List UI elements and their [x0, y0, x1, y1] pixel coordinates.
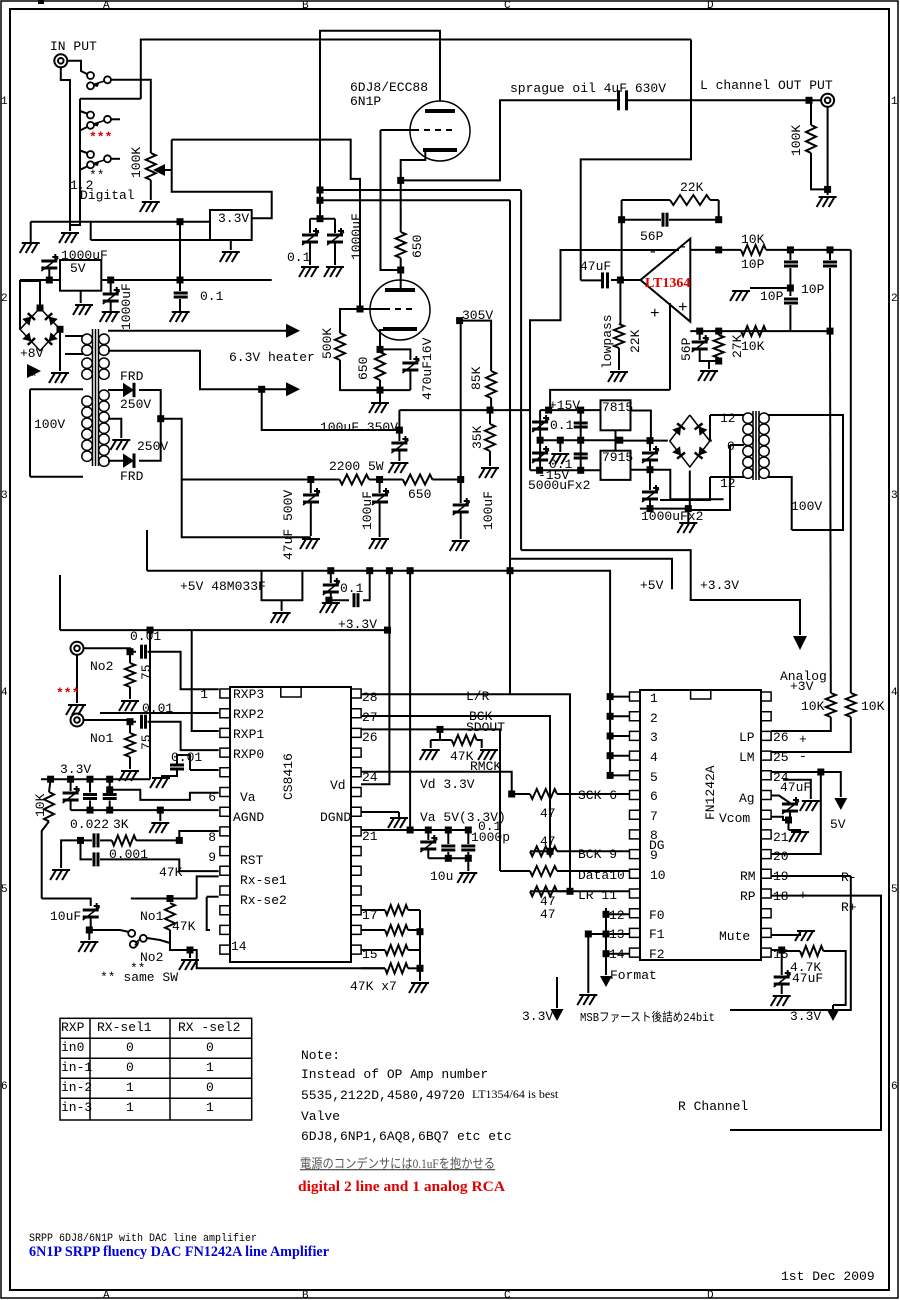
- wire cap1000b gnd: [110, 302, 112, 311]
- node anode rail a: [317, 187, 324, 194]
- wire cap01 stem: [179, 280, 181, 291]
- wire fn supply col: [609, 694, 611, 777]
- diode B2 d3: [672, 446, 685, 458]
- wire 3K right: [136, 839, 179, 841]
- wire fn pin3 link: [610, 735, 629, 737]
- wire c01 48M stem: [330, 571, 332, 583]
- resistor 75 No2: [125, 663, 135, 687]
- svg-text:Note:: Note:: [301, 1048, 340, 1063]
- ground 75 No2: [119, 701, 139, 711]
- node V2 anode: [397, 267, 404, 274]
- svg-text:+3.3V: +3.3V: [338, 617, 377, 632]
- wire jack shell down: [827, 107, 829, 195]
- svg-text:1000uFx2: 1000uFx2: [641, 509, 703, 524]
- svg-text:1000uF: 1000uF: [349, 213, 364, 260]
- T1 secondary HV: [99, 390, 109, 466]
- node B+ a: [307, 476, 314, 483]
- ground 0.01 third: [150, 778, 170, 788]
- node output ground: [824, 186, 831, 193]
- svg-text:6DJ8,6NP1,6AQ8,6BQ7 etc etc: 6DJ8,6NP1,6AQ8,6BQ7 etc etc: [301, 1129, 512, 1144]
- arrow heater 2: [286, 382, 300, 396]
- wire c47 top: [310, 480, 312, 494]
- wire agnd gnd stem: [159, 810, 161, 821]
- node 305V: [456, 317, 463, 324]
- wire cap col b2: [580, 440, 582, 470]
- wire fn pin1 link: [610, 696, 629, 698]
- wire reg mid2: [615, 441, 617, 451]
- node B1 plus: [37, 305, 44, 312]
- svg-text:in-2: in-2: [61, 1080, 92, 1095]
- wire T1 primary bottom: [30, 476, 83, 478]
- node B1 ac: [57, 326, 64, 333]
- svg-text:75: 75: [139, 664, 154, 680]
- wire BCK9 row: [530, 850, 550, 852]
- IC U3 left pin stubs: [630, 692, 641, 957]
- resistor 47K term: [452, 735, 477, 745]
- wire fb left: [621, 200, 623, 280]
- svg-text:RX -sel2: RX -sel2: [178, 1020, 240, 1035]
- node rail x389: [386, 567, 393, 574]
- wire No1 to cap: [84, 720, 137, 722]
- ground vcom: [789, 832, 809, 842]
- wire No2 to cap: [84, 648, 137, 651]
- svg-text:3: 3: [650, 730, 658, 745]
- svg-text:R Channel: R Channel: [678, 1099, 748, 1114]
- capacitor 47uF fmt: [774, 970, 791, 987]
- svg-text:LP: LP: [739, 730, 755, 745]
- capacitor 100uF B2: [453, 498, 470, 515]
- node vab1: [445, 855, 452, 862]
- wire B+ seg3: [432, 479, 460, 481]
- wire Va wire: [110, 790, 219, 800]
- node 47x7 b: [417, 965, 424, 972]
- svg-text:in-1: in-1: [61, 1060, 92, 1075]
- node Va tap: [106, 786, 113, 793]
- svg-text:470uF16V: 470uF16V: [420, 337, 435, 400]
- node r4: [106, 776, 113, 783]
- wire R650c bottom: [379, 380, 381, 390]
- svg-text:250V: 250V: [120, 397, 151, 412]
- wire 100K top: [810, 100, 812, 125]
- resistor 2200 5W: [340, 475, 370, 485]
- svg-text:*: *: [30, 370, 38, 385]
- capacitor 0.1b -15: [574, 454, 588, 458]
- resistor 47 SCK: [530, 789, 557, 799]
- node V2 grid: [357, 306, 364, 313]
- wire va gnd stem: [467, 858, 469, 871]
- wire FRD bottom out: [139, 419, 161, 461]
- wire SCK row: [512, 793, 530, 795]
- svg-text:Rx-se2: Rx-se2: [240, 893, 287, 908]
- wire inv to 10K: [719, 249, 741, 251]
- wire 47K bot: [170, 930, 190, 950]
- capacitor 0.1b +15: [574, 423, 588, 427]
- node output: [806, 97, 813, 104]
- wire 47uF dac bot: [789, 812, 791, 820]
- wire cpa stem: [447, 830, 449, 844]
- capacitor c2 3v3: [83, 795, 97, 799]
- svg-text:Vd: Vd: [330, 778, 346, 793]
- switch SW4 No1 No2: [128, 930, 147, 948]
- svg-text:R-: R-: [841, 870, 857, 885]
- wire supply mid: [91, 239, 210, 241]
- wire c01a stem: [309, 219, 311, 233]
- node fn pin1: [607, 693, 614, 700]
- svg-text:R+: R+: [841, 900, 857, 915]
- node noninv c: [827, 328, 834, 335]
- svg-text:0.01: 0.01: [130, 629, 161, 644]
- wire T2 sec top: [710, 414, 744, 416]
- svg-text:0.1: 0.1: [287, 250, 311, 265]
- node no1 47K: [167, 895, 174, 902]
- svg-text:6.3V heater: 6.3V heater: [229, 350, 315, 365]
- wire rail 550: [521, 550, 800, 635]
- svg-text:4: 4: [891, 687, 898, 699]
- wire out rail right: [581, 40, 691, 281]
- node va3: [445, 827, 452, 834]
- wire 10pa mid: [789, 268, 791, 296]
- wire RMCK: [361, 772, 512, 794]
- wire supply mid rise: [90, 222, 92, 240]
- svg-text:56P: 56P: [679, 337, 694, 361]
- svg-text:F0: F0: [649, 908, 665, 923]
- node B2 bottom: [685, 505, 692, 512]
- wire rst up: [179, 831, 218, 840]
- svg-text:3: 3: [1, 490, 8, 502]
- wire No2 shell: [76, 655, 78, 703]
- svg-text:10K: 10K: [33, 793, 48, 817]
- svg-text:500K: 500K: [320, 328, 335, 359]
- wire 47uF left link: [581, 279, 601, 281]
- wire cap to out jack: [627, 99, 809, 101]
- svg-text:10u: 10u: [430, 869, 453, 884]
- resistor 650 B+: [403, 475, 433, 485]
- svg-text:0.01: 0.01: [171, 750, 202, 765]
- node cathode ground: [377, 387, 384, 394]
- svg-text:LT1364: LT1364: [645, 276, 690, 291]
- wire 500K bottom: [340, 360, 410, 390]
- node 10uF: [86, 927, 93, 934]
- table RX select outline: [60, 1018, 252, 1120]
- svg-text:47: 47: [540, 907, 556, 922]
- wire 100K bottom: [811, 153, 828, 189]
- svg-text:LT1354/64 is best: LT1354/64 is best: [472, 1087, 559, 1101]
- svg-text:47: 47: [540, 806, 556, 821]
- svg-text:7915: 7915: [602, 450, 633, 465]
- svg-text:No1: No1: [140, 909, 164, 924]
- node 5V in: [46, 277, 53, 284]
- node 350V cap: [396, 427, 403, 434]
- T1 primary 100V: [82, 396, 92, 461]
- transformer T2 core: [753, 411, 759, 480]
- svg-text:RX-sel1: RX-sel1: [97, 1020, 152, 1035]
- svg-text:10P: 10P: [801, 282, 825, 297]
- wire c1000a2 bot: [334, 243, 336, 265]
- svg-text:1: 1: [206, 1060, 214, 1075]
- wire fn pin2 link: [610, 715, 629, 717]
- svg-text:Mute: Mute: [719, 929, 750, 944]
- node -15b: [577, 467, 584, 474]
- svg-text:+3V: +3V: [790, 679, 814, 694]
- wire V- supply: [530, 250, 679, 470]
- wire cpb bot: [467, 852, 469, 858]
- svg-text:1000p: 1000p: [471, 830, 510, 845]
- wire SW3 stub lower: [80, 167, 87, 170]
- wire fn pin14 link: [606, 953, 630, 955]
- node 48M c: [325, 597, 332, 604]
- wire c3 bot: [109, 801, 111, 811]
- wire 10uF bot: [90, 918, 92, 930]
- ground bridge B1: [49, 373, 69, 383]
- node rst a: [77, 837, 84, 844]
- wire fb right2: [710, 199, 719, 201]
- node r1: [47, 776, 54, 783]
- svg-text:10K: 10K: [861, 699, 885, 714]
- wire 47K term right: [477, 740, 482, 748]
- wire rxse2 wire: [207, 896, 219, 898]
- wire grid V1: [381, 129, 420, 131]
- node mid2: [647, 466, 654, 473]
- svg-text:RXP: RXP: [61, 1020, 85, 1035]
- wire c100b bot: [460, 513, 462, 539]
- node B+ c: [457, 476, 464, 483]
- wire wiper up leg: [171, 140, 173, 170]
- T2 secondary: [743, 413, 753, 478]
- svg-text:56P: 56P: [640, 229, 664, 244]
- capacitor 100uF 350V: [391, 436, 408, 453]
- node 5V out2: [177, 277, 184, 284]
- wire RXP1 feed: [192, 630, 219, 731]
- node cap pair: [317, 215, 324, 222]
- svg-text:SCK 6: SCK 6: [578, 788, 617, 803]
- capacitor 0.1 5V: [174, 293, 188, 297]
- wire x830 long drop: [829, 331, 832, 693]
- wire cap col a2: [539, 440, 541, 470]
- wire B+ return: [182, 480, 311, 538]
- switch SW1 input select: [87, 72, 111, 89]
- wire 35K bottom: [489, 451, 491, 466]
- wire x510 drop: [509, 200, 511, 694]
- svg-text:3: 3: [891, 490, 898, 502]
- wire c3 stem: [109, 779, 111, 792]
- wire rail 558: [510, 559, 672, 590]
- ground supply left: [20, 243, 40, 253]
- node fn pin2: [607, 713, 614, 720]
- node 85K 35K: [487, 407, 494, 414]
- wire c350 stem: [398, 430, 400, 441]
- wire T2 sec mid: [730, 444, 744, 446]
- regulator 48M033F box: [262, 571, 303, 601]
- ground 47uF dac: [800, 801, 820, 811]
- wire f1 gnd col: [587, 934, 589, 993]
- wire 3v3 row ext: [110, 778, 150, 780]
- resistor 3K: [112, 835, 136, 845]
- wire 47Kx7 lead 1: [361, 909, 385, 911]
- wire rail +5V main: [147, 571, 610, 698]
- wire -15V rail: [530, 469, 601, 471]
- svg-text:***: ***: [89, 130, 112, 145]
- resistor 10K left: [44, 792, 54, 821]
- resistor 4.7K: [800, 946, 823, 956]
- wire 56p2 stem: [699, 331, 701, 340]
- ground input jack: [59, 233, 79, 243]
- svg-text:5: 5: [650, 770, 658, 785]
- svg-text:Ag: Ag: [739, 791, 755, 806]
- diode B1 d4: [45, 332, 58, 345]
- svg-text:Va: Va: [240, 790, 256, 805]
- node 5V out: [107, 277, 114, 284]
- wire T2 pri bot: [768, 477, 792, 530]
- node mid15 b: [557, 437, 564, 444]
- wire inv input: [690, 249, 718, 251]
- node fn pin14: [603, 950, 610, 957]
- svg-text:21: 21: [773, 830, 789, 845]
- svg-text:DGND: DGND: [320, 810, 351, 825]
- wire 75 No2 bot: [129, 687, 131, 699]
- regulator 5V box: [60, 260, 101, 291]
- capacitor 1000uF a: [642, 446, 659, 463]
- wire cathode V1: [401, 150, 426, 180]
- wire grid feed: [172, 140, 360, 309]
- ground pot: [140, 202, 160, 212]
- wire bottom run: [190, 950, 385, 968]
- capacitor 1000p a: [441, 846, 455, 850]
- resistor 22K lowpass: [614, 324, 624, 348]
- ground AGND: [149, 823, 169, 833]
- wire cathode to 470uF: [380, 349, 410, 360]
- ground 0.1 anode: [299, 267, 319, 277]
- svg-text:47K x7: 47K x7: [350, 979, 397, 994]
- wire 56p right: [669, 219, 719, 221]
- wire cap1000b: [110, 280, 112, 293]
- ground 48M033F: [271, 613, 291, 623]
- svg-text:0.1: 0.1: [550, 418, 574, 433]
- wire B1 to 5V rail: [20, 281, 40, 329]
- wire F1 gnd link: [588, 933, 606, 935]
- svg-text:650: 650: [356, 357, 371, 380]
- node va2: [425, 827, 432, 834]
- svg-text:-: -: [678, 238, 688, 256]
- node heater mid: [258, 386, 265, 393]
- svg-text:7: 7: [650, 809, 658, 824]
- wire SW2 stub upper: [80, 111, 87, 114]
- node +15b: [577, 407, 584, 414]
- svg-text:3.3V: 3.3V: [790, 1009, 821, 1024]
- node rail x410: [407, 567, 414, 574]
- wire 470uF bottom: [409, 371, 411, 390]
- wire c100a top: [379, 480, 381, 494]
- svg-text:10K: 10K: [741, 232, 765, 247]
- svg-text:FN1242A: FN1242A: [703, 765, 718, 820]
- wire 10K L col: [771, 717, 831, 731]
- T2 primary: [759, 413, 769, 478]
- resistor 47 LR11: [530, 886, 557, 896]
- capacitor 10uF: [83, 903, 100, 920]
- svg-text:FRD: FRD: [120, 369, 144, 384]
- wire 10K left bot: [42, 821, 49, 898]
- ground 10uF: [78, 942, 98, 952]
- capacitor 47uF opamp: [603, 272, 608, 288]
- wire No1 cap out: [148, 722, 219, 750]
- wire SCK row2: [557, 793, 630, 795]
- svg-text:No1: No1: [90, 731, 114, 746]
- svg-text:2: 2: [891, 293, 898, 305]
- wire 47Kx7 lead 4: [361, 967, 385, 969]
- svg-text:in0: in0: [61, 1040, 84, 1055]
- ground No2 jack: [66, 705, 86, 715]
- resistor 500K: [335, 333, 345, 360]
- wire c100a bot: [379, 503, 381, 537]
- wire 7815 out: [631, 411, 651, 441]
- wire c47fmt bot: [781, 985, 783, 994]
- node r2: [67, 776, 74, 783]
- wire rail y200: [320, 199, 510, 201]
- ground output jack: [817, 197, 837, 207]
- resistor 10K noninv: [741, 326, 766, 336]
- wire fb left2: [622, 199, 670, 201]
- wire c3 gnd: [161, 771, 177, 777]
- svg-text:21: 21: [362, 829, 378, 844]
- node fn pin13: [603, 931, 610, 938]
- wire 10pb stem: [829, 250, 831, 260]
- wire vcom lead: [771, 817, 788, 820]
- wire rst gnd: [61, 840, 80, 868]
- svg-text:100uF 350V: 100uF 350V: [320, 420, 398, 435]
- ground 100uF b: [450, 541, 470, 551]
- svg-text:5000uFx2: 5000uFx2: [528, 478, 590, 493]
- node rail x330: [327, 567, 334, 574]
- node fn pin12: [603, 911, 610, 918]
- wire opamp out: [611, 279, 641, 281]
- wire T1 5V tap bot: [65, 353, 83, 355]
- svg-text:3.3V: 3.3V: [522, 1009, 553, 1024]
- RCA jack No1: [71, 714, 84, 727]
- svg-text:100uF: 100uF: [481, 491, 496, 530]
- svg-text:+: +: [799, 732, 807, 747]
- wire 47K lgnd stub: [431, 739, 440, 741]
- wire T2 sec bot: [710, 476, 744, 478]
- svg-text:-: -: [799, 869, 807, 884]
- wire cap col b: [580, 410, 582, 440]
- wire fb right: [718, 200, 720, 220]
- ground B2: [677, 523, 697, 533]
- wire 0.01 No0 feed: [190, 769, 219, 771]
- svg-text:A: A: [103, 0, 110, 12]
- wire 10pb bot: [829, 268, 831, 331]
- svg-text:D: D: [707, 1290, 714, 1300]
- svg-text:CS8416: CS8416: [281, 753, 296, 800]
- svg-text:5: 5: [891, 884, 898, 896]
- wire 75 No1 bot: [129, 757, 131, 769]
- capacitor 0.1 48M: [323, 578, 340, 595]
- wire 27K gnd stem2: [708, 361, 710, 369]
- ground mute: [795, 931, 815, 941]
- wire 10uF gnd: [88, 930, 90, 940]
- wire HV center tap: [108, 419, 121, 438]
- svg-text:4: 4: [1, 687, 8, 699]
- arrow 3.3V left: [551, 1009, 564, 1021]
- resistor 47Kx7 1: [385, 905, 408, 915]
- capacitor 10P b: [823, 262, 837, 266]
- wire grid to 500K: [340, 309, 360, 333]
- svg-text:6DJ8/ECC88: 6DJ8/ECC88: [350, 80, 428, 95]
- svg-text:Digital: Digital: [80, 188, 135, 203]
- node opamp out: [617, 277, 624, 284]
- resistor 27K: [714, 335, 724, 358]
- wire 4.7K left: [782, 950, 800, 952]
- wire HV to B+ rail: [161, 419, 311, 480]
- wire c350 gnd: [398, 451, 400, 461]
